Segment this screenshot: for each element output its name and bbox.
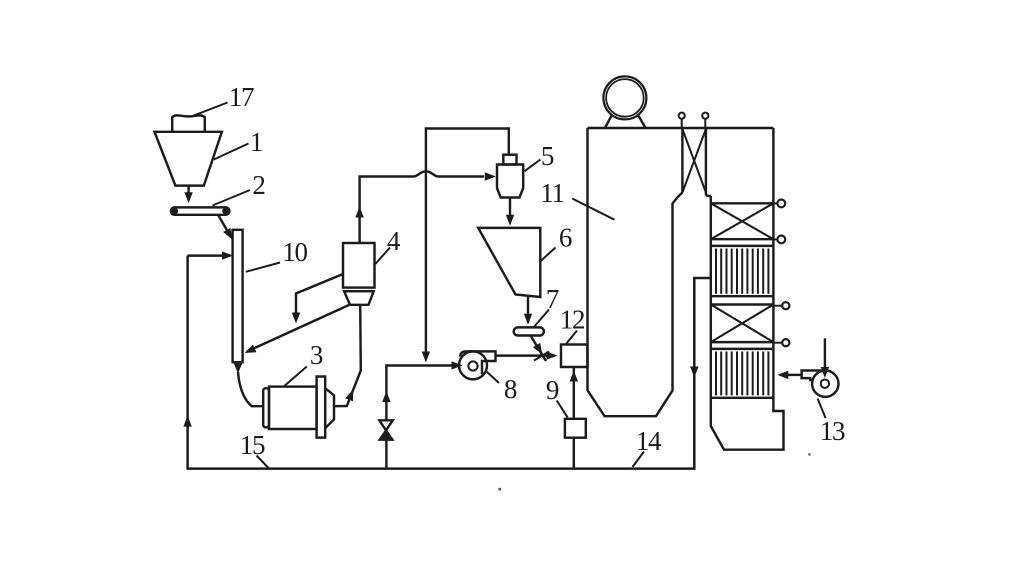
drum vent stubs — [679, 113, 709, 128]
label 17 — [229, 82, 254, 112]
label 2 — [252, 170, 265, 200]
arrow down right bus — [690, 367, 698, 378]
wire box 9 to mixer 12 — [570, 367, 578, 419]
svg-text:6: 6 — [559, 223, 572, 253]
label 14 leader — [633, 452, 645, 468]
svg-text:12: 12 — [560, 305, 585, 335]
label 11 — [540, 178, 564, 208]
label 4 leader — [375, 248, 390, 265]
fan 13 — [802, 371, 839, 397]
label 6 leader — [541, 248, 556, 261]
label 5 — [541, 141, 554, 171]
label 11 leader — [572, 199, 614, 220]
wire fan 13 to air heater — [777, 371, 801, 379]
recirculation duct wire 15-14 — [188, 256, 711, 469]
wire feeder 7 to mixer 12 — [531, 336, 550, 362]
label 12 — [560, 305, 585, 335]
steam outlet stubs 1 — [773, 200, 785, 244]
svg-text:5: 5 — [541, 141, 554, 171]
arrow up left bus — [183, 416, 191, 427]
label 5 leader — [525, 160, 541, 172]
wire hopper 1 to feeder 2 — [184, 186, 192, 203]
label 1 leader — [214, 144, 249, 160]
svg-text:3: 3 — [310, 340, 323, 370]
ball mill 3 — [263, 377, 334, 438]
wire hopper 6 to feeder 7 — [524, 297, 532, 325]
arrow into shaft 10 — [188, 251, 233, 259]
label 15 leader — [257, 456, 270, 469]
valve — [379, 420, 393, 440]
superheater bank 2 — [711, 305, 774, 343]
hopper 6 — [478, 228, 540, 297]
svg-text:8: 8 — [504, 374, 517, 404]
svg-text:2: 2 — [252, 170, 265, 200]
svg-text:15: 15 — [240, 430, 265, 460]
wire feeder 2 to drying shaft 10 — [219, 216, 233, 240]
label 7 — [546, 284, 559, 314]
wire cyclone 5 to hopper 6 — [506, 198, 514, 226]
label 9 — [546, 375, 559, 405]
label 15 — [240, 430, 265, 460]
label 2 leader — [213, 190, 251, 206]
steam outlet stubs 2 — [773, 302, 789, 346]
svg-text:13: 13 — [820, 416, 845, 446]
wire valve riser — [382, 361, 462, 468]
shaft 10 outlet arrow — [233, 363, 263, 407]
drying shaft 10 — [233, 230, 243, 362]
cyclone 5 — [497, 155, 523, 198]
boiler furnace 11 outline — [588, 128, 774, 416]
wire cyclone 4 side drop — [292, 274, 343, 324]
label 17 leader — [191, 103, 228, 117]
label 3 — [310, 340, 323, 370]
wire fan 8 to mixer 12 — [496, 351, 558, 359]
label 10 — [282, 237, 307, 267]
box 9 — [565, 419, 586, 438]
fan 8 — [459, 351, 496, 379]
svg-text:7: 7 — [546, 284, 559, 314]
speck 2 — [808, 453, 811, 456]
svg-text:9: 9 — [546, 375, 559, 405]
svg-text:14: 14 — [636, 426, 662, 456]
air heater tube bundle 2 — [711, 349, 774, 398]
label 1 — [250, 127, 262, 157]
return duct cyclone 4 to shaft 10 — [245, 305, 350, 354]
economizer tube bundle 1 — [711, 246, 774, 296]
speck — [498, 488, 501, 491]
label 13 — [820, 416, 845, 446]
svg-text:11: 11 — [540, 178, 564, 208]
wire mill 3 to cyclone 4 — [334, 305, 361, 406]
steam drum — [603, 76, 646, 128]
superheater bank — [711, 203, 774, 239]
rear pass right wall — [711, 128, 784, 450]
svg-text:17: 17 — [229, 82, 254, 112]
svg-text:4: 4 — [387, 226, 401, 256]
mixer 12 — [561, 345, 588, 368]
label 7 leader — [534, 310, 550, 328]
label 14 — [636, 426, 662, 456]
label 10 leader — [246, 263, 280, 272]
wire fan 13 inlet — [821, 338, 829, 378]
wire cyclone 5 overflow to fan 8 — [422, 129, 509, 363]
wire box 9 to bus — [573, 438, 575, 469]
platen superheater — [682, 128, 710, 196]
label 8 — [504, 374, 517, 404]
riser cyclone 4 to cyclone 5 — [355, 171, 495, 243]
rotary feeder 7 — [514, 327, 544, 335]
label 8 leader — [487, 372, 500, 384]
label 9 leader — [557, 401, 568, 418]
svg-text:10: 10 — [282, 237, 307, 267]
hopper inlet chute 17 — [172, 115, 205, 131]
svg-text:1: 1 — [250, 127, 262, 157]
cyclone separator 4 — [343, 243, 375, 305]
label 3 leader — [285, 367, 307, 386]
label 6 — [559, 223, 572, 253]
label 4 — [387, 226, 401, 256]
hopper 1 — [155, 132, 222, 186]
label 13 leader — [818, 399, 826, 419]
label 12 leader — [566, 331, 577, 345]
rotary feeder 2 — [171, 207, 230, 214]
